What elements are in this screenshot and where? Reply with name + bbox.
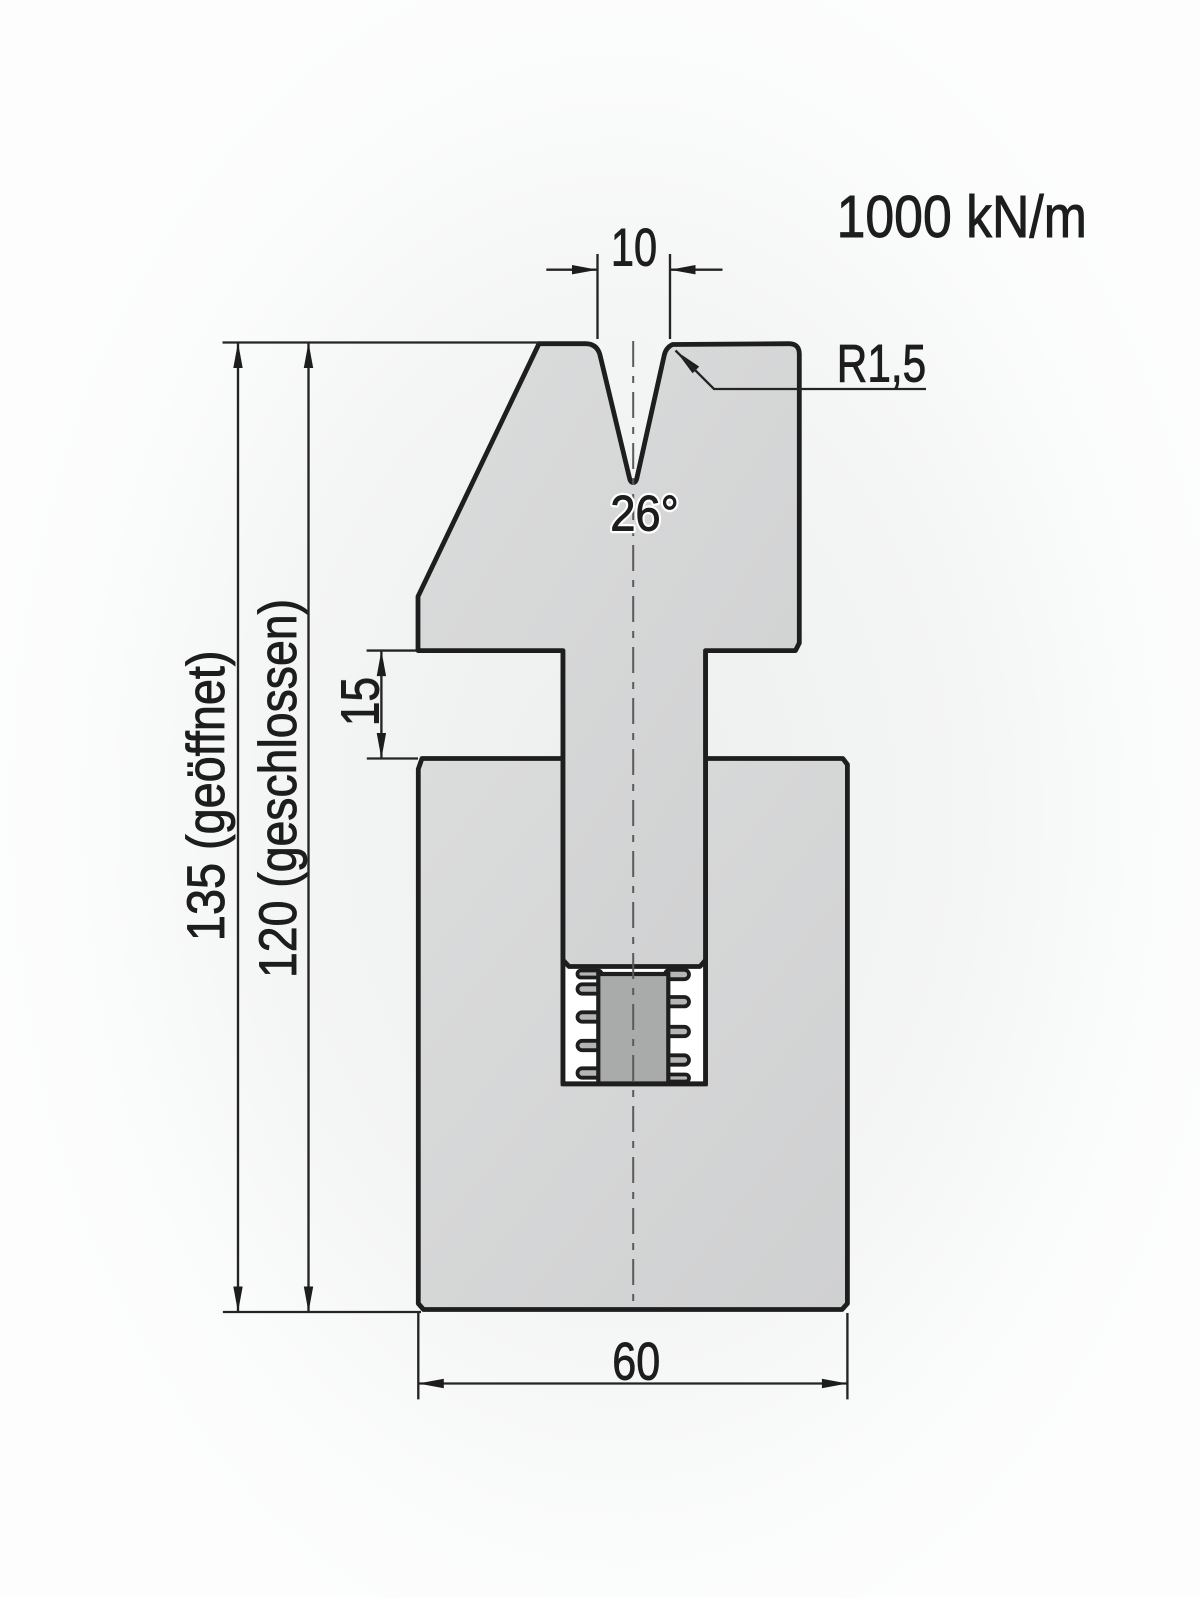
dimension 60: extension lines xyxy=(417,1313,419,1399)
base block (lower die holder) xyxy=(418,759,847,1310)
svg-text:135 (geöffnet): 135 (geöffnet) xyxy=(176,651,235,942)
dimension 60: dimension line with arrows xyxy=(418,1382,847,1384)
spring coil right loop 2 xyxy=(665,997,689,1006)
leader R1,5 arrow xyxy=(676,351,699,373)
dimension 120 closed: dimension line with arrows xyxy=(307,343,309,1313)
slot wall right xyxy=(703,651,708,1084)
spring coil right loop 4 xyxy=(665,1055,689,1064)
svg-text:60: 60 xyxy=(612,1332,660,1391)
dimension 135 open: extension line top xyxy=(223,341,541,343)
centerline xyxy=(632,341,634,1308)
dimension 15: dimension line with arrows xyxy=(380,651,382,759)
spring coil left loop 1 xyxy=(578,971,602,978)
svg-text:R1,5: R1,5 xyxy=(837,335,926,394)
spring cavity (white interior) xyxy=(563,967,706,1084)
spring coil left loop 2 xyxy=(578,984,602,993)
upper die body with V-groove xyxy=(418,344,799,967)
spring coil left loop 4 xyxy=(578,1041,602,1050)
svg-text:1000 kN/m: 1000 kN/m xyxy=(837,184,1087,250)
spring coil right loop 1 xyxy=(665,970,689,979)
spring coil left loop 3 xyxy=(578,1012,602,1021)
spring coil left loop 5 xyxy=(578,1068,602,1077)
spring coil right loop 5 xyxy=(665,1075,689,1082)
dimension 135: dimension line with arrows xyxy=(237,343,239,1313)
dimension 10: dimension line with arrows xyxy=(546,269,597,271)
svg-text:15: 15 xyxy=(330,677,390,726)
dimension 10: extension lines xyxy=(596,254,598,339)
spring coil right loop 3 xyxy=(665,1027,689,1036)
dimension 135/120: extension line bottom xyxy=(223,1311,421,1313)
spring guide rod xyxy=(598,974,668,1084)
svg-text:120 (geschlossen): 120 (geschlossen) xyxy=(248,599,308,978)
slot wall left xyxy=(561,651,566,1084)
dimension 15: extension lines xyxy=(367,649,416,651)
svg-text:26°: 26° xyxy=(610,487,679,543)
cavity bottom xyxy=(561,1081,708,1086)
svg-text:10: 10 xyxy=(611,218,657,277)
